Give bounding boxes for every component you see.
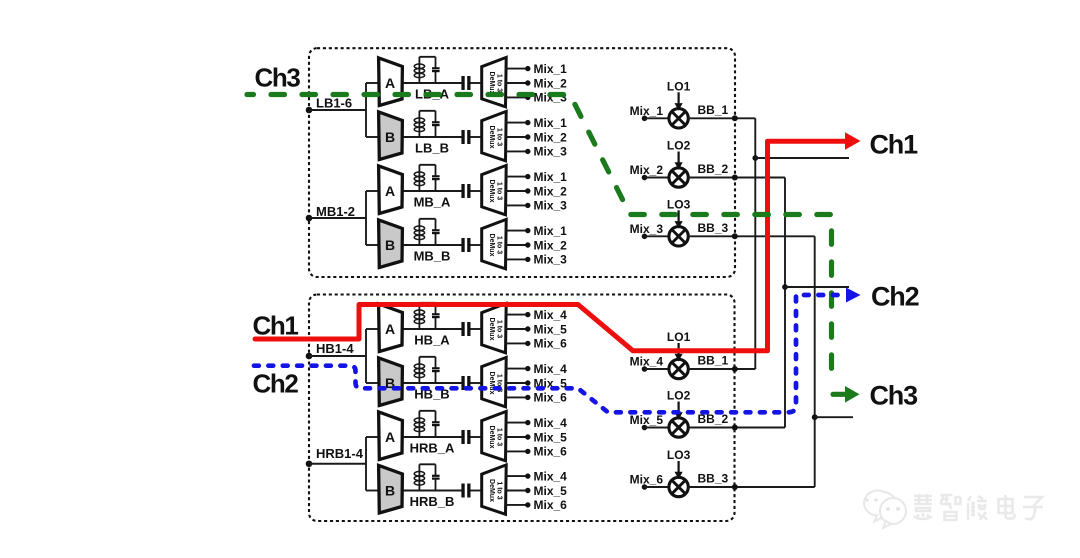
wire: MB_A row main line [402, 190, 462, 192]
svg-text:Mix_2: Mix_2 [534, 184, 568, 198]
mixer input port Mix_1 [642, 116, 648, 122]
series capacitor after LB_A [461, 76, 464, 90]
svg-text:Mix_4: Mix_4 [534, 308, 568, 322]
demux output Mix_4 of HRB_A [506, 422, 528, 424]
svg-text:Ch2: Ch2 [871, 282, 919, 312]
svg-text:Mix_6: Mix_6 [534, 445, 568, 459]
output port dot on box border (BB_3) [732, 484, 738, 490]
1-to-3 demux MB_B [482, 219, 507, 268]
wire: HB_B row main line [402, 382, 462, 384]
amplifier LB_A (A) [379, 58, 403, 106]
svg-text:B: B [385, 482, 395, 498]
junction on BB_2 bus [782, 284, 788, 290]
svg-text:A: A [385, 75, 395, 91]
demux output Mix_1 of MB_A [506, 176, 528, 178]
svg-text:Mix_6: Mix_6 [534, 337, 568, 351]
svg-text:HB_A: HB_A [414, 333, 450, 348]
wire: BB_1 vertical bus [754, 118, 756, 369]
amplifier HB_A (A) [379, 304, 403, 352]
Ch2 signal path (blue dashed) [254, 295, 847, 412]
junction on BB_1 bus [752, 155, 758, 161]
mixer (circle-X) for Mix_3/BB_3 [669, 227, 688, 246]
wire: mixer BB_2 output [688, 177, 785, 179]
mixer (circle-X) for Mix_2/BB_2 [669, 168, 688, 187]
amplifier MB_A (A) [379, 166, 403, 214]
amplifier LB_B (B) [379, 112, 403, 160]
svg-text:Mix_2: Mix_2 [630, 163, 664, 177]
svg-text:LO1: LO1 [667, 330, 691, 344]
wire: HRB_A row main line [402, 436, 462, 438]
svg-text:LO1: LO1 [667, 79, 691, 93]
1-to-3 demux LB_B [482, 111, 507, 160]
svg-text:LB1-6: LB1-6 [316, 96, 352, 111]
series capacitor after LB_B [461, 130, 464, 144]
svg-text:Mix_3: Mix_3 [534, 199, 568, 213]
mixer (circle-X) for Mix_1/BB_1 [669, 109, 688, 128]
demux output Mix_1 of MB_B [506, 230, 528, 232]
svg-text:Mix_2: Mix_2 [534, 238, 568, 252]
wire: mixer BB_3 output [688, 486, 815, 488]
svg-text:1 to 3DeMux: 1 to 3DeMux [488, 426, 503, 449]
svg-text:Mix_1: Mix_1 [534, 62, 568, 76]
wire: HRB_B row main line [402, 490, 462, 492]
output port dot on box border (BB_1) [732, 115, 738, 121]
mixer input port Mix_2 [642, 175, 648, 181]
svg-text:Ch3: Ch3 [255, 63, 301, 93]
junction on BB_3 bus [812, 414, 818, 420]
svg-text:Mix_6: Mix_6 [534, 498, 568, 512]
tank capacitor plates HB_A [432, 313, 440, 315]
wire: mixer BB_2 output [688, 427, 785, 429]
wire: BB_3 bus to Ch3 output [815, 416, 853, 418]
svg-text:Ch1: Ch1 [870, 130, 919, 160]
svg-text:Ch3: Ch3 [870, 381, 919, 411]
svg-text:MB_A: MB_A [414, 195, 451, 210]
svg-text:B: B [385, 237, 395, 253]
matching tank LB_B: inductor + capacitor loop [414, 111, 435, 137]
watermark: company name (CJK strokes) [914, 494, 1043, 520]
mixer input port Mix_6 [642, 484, 648, 490]
svg-text:1 to 3DeMux: 1 to 3DeMux [488, 234, 503, 257]
Ch3 signal path (green dashed) [247, 95, 832, 385]
tank capacitor plates HRB_B [432, 475, 440, 477]
dashed enclosure box: second-stage bank (HB/HRB) [309, 295, 735, 522]
1-to-3 demux MB_A [482, 165, 507, 214]
demux output Mix_6 of HB_A [506, 342, 528, 344]
series capacitor after HRB_A [461, 430, 464, 444]
demux output Mix_2 of LB_B [506, 136, 528, 138]
series capacitor after HRB_B [461, 484, 464, 498]
wire: BB_2 vertical bus [784, 178, 786, 428]
svg-text:Mix_1: Mix_1 [534, 170, 568, 184]
tank capacitor plates MB_A [432, 175, 440, 177]
demux output Mix_1 of LB_B [506, 122, 528, 124]
matching tank MB_A: inductor + capacitor loop [414, 165, 435, 191]
amplifier HRB_B (B) [379, 465, 403, 513]
svg-text:Mix_5: Mix_5 [534, 322, 568, 336]
svg-text:LO2: LO2 [667, 389, 691, 403]
demux output Mix_5 of HRB_A [506, 436, 528, 438]
demux output Mix_3 of MB_A [506, 204, 528, 206]
wire: splitter to amp A input [366, 328, 379, 330]
wire: BB_1 bus to Ch1 output [755, 157, 849, 159]
demux output Mix_1 of LB_A [506, 68, 528, 70]
wire: BB_2 bus to Ch2 output [785, 286, 849, 288]
matching tank MB_B: inductor + capacitor loop [414, 219, 435, 245]
svg-text:1 to 3DeMux: 1 to 3DeMux [488, 180, 503, 203]
svg-text:Ch2: Ch2 [253, 369, 299, 399]
tank capacitor plates LB_B [432, 121, 440, 123]
wire: Mix_3 port to mixer [645, 235, 670, 237]
wire: splitter to amp A input [366, 82, 379, 84]
wire: mixer BB_1 output [688, 368, 755, 370]
wire: mixer BB_3 output [688, 235, 815, 237]
demux output Mix_4 of HB_A [506, 314, 528, 316]
series capacitor after MB_A [461, 184, 464, 198]
demux output Mix_5 of HB_B [506, 382, 528, 384]
svg-text:Mix_6: Mix_6 [534, 391, 568, 405]
svg-text:A: A [385, 183, 395, 199]
tank capacitor plates HB_B [432, 367, 440, 369]
matching tank HB_A: inductor + capacitor loop [414, 303, 435, 329]
wire: port HB1-4 to splitter [309, 355, 366, 357]
svg-text:HRB_B: HRB_B [410, 494, 455, 509]
svg-text:BB_1: BB_1 [698, 354, 729, 368]
demux output Mix_5 of HRB_B [506, 490, 528, 492]
wire: splitter to amp A input [366, 436, 379, 438]
wire: port LB1-6 to splitter [309, 109, 366, 111]
wire: splitter vertical for HRB1-4 [365, 437, 367, 491]
demux output Mix_3 of LB_B [506, 150, 528, 152]
demux output Mix_3 of LB_A [506, 96, 528, 98]
svg-text:MB1-2: MB1-2 [316, 204, 355, 219]
tank capacitor plates MB_B [432, 229, 440, 231]
Ch1 signal path (red solid) [255, 141, 846, 351]
svg-text:LB_B: LB_B [415, 141, 449, 156]
wire: port HRB1-4 to splitter [309, 463, 366, 465]
1-to-3 demux HRB_B [482, 465, 507, 514]
wire: splitter to amp B input [366, 136, 379, 138]
1-to-3 demux HB_B [482, 357, 507, 406]
svg-text:LO3: LO3 [667, 448, 691, 462]
demux output Mix_5 of HB_A [506, 328, 528, 330]
wire: splitter vertical for MB1-2 [365, 191, 367, 245]
mixer input port Mix_5 [642, 425, 648, 431]
output port dot on box border (BB_1) [732, 366, 738, 372]
output port dot on box border (BB_2) [732, 425, 738, 431]
svg-text:1 to 3DeMux: 1 to 3DeMux [488, 318, 503, 341]
wire: mixer BB_1 output [688, 117, 755, 119]
svg-text:A: A [385, 429, 395, 445]
demux output Mix_2 of LB_A [506, 82, 528, 84]
demux output Mix_6 of HRB_A [506, 450, 528, 452]
demux output Mix_3 of MB_B [506, 258, 528, 260]
wire: port MB1-2 to splitter [309, 217, 366, 219]
svg-text:Mix_3: Mix_3 [534, 145, 568, 159]
mixer input port Mix_4 [642, 366, 648, 372]
svg-text:Mix_4: Mix_4 [534, 362, 568, 376]
wire: Mix_4 port to mixer [645, 368, 670, 370]
wire: Mix_1 port to mixer [645, 117, 670, 119]
svg-text:A: A [385, 321, 395, 337]
wire: LB_B row main line [402, 136, 462, 138]
svg-text:HRB_A: HRB_A [410, 441, 455, 456]
wire: BB_3 vertical bus [814, 236, 816, 487]
svg-text:BB_3: BB_3 [698, 472, 729, 486]
svg-text:HB1-4: HB1-4 [316, 341, 354, 356]
svg-text:Mix_4: Mix_4 [630, 355, 664, 369]
svg-text:Mix_3: Mix_3 [630, 222, 664, 236]
wire: LB_A row main line [402, 82, 462, 84]
amplifier HB_B (B) [379, 358, 403, 406]
svg-text:HRB1-4: HRB1-4 [316, 446, 364, 461]
svg-text:1 to 3DeMux: 1 to 3DeMux [488, 372, 503, 395]
1-to-3 demux HRB_A [482, 411, 507, 460]
svg-text:B: B [385, 129, 395, 145]
amplifier HRB_A (A) [379, 412, 403, 460]
input port HB1-4 (dot on box border) [306, 353, 313, 360]
svg-text:1 to 3DeMux: 1 to 3DeMux [488, 479, 503, 502]
demux output Mix_6 of HB_B [506, 396, 528, 398]
series capacitor after HB_A [461, 322, 464, 336]
output port dot on box border (BB_3) [732, 233, 738, 239]
series capacitor after MB_B [461, 238, 464, 252]
output port dot on box border (BB_2) [732, 175, 738, 181]
demux output Mix_6 of HRB_B [506, 504, 528, 506]
svg-text:Mix_3: Mix_3 [534, 253, 568, 267]
svg-text:1 to 3DeMux: 1 to 3DeMux [488, 126, 503, 149]
matching tank LB_A: inductor + capacitor loop [414, 57, 435, 83]
wire: splitter to amp B input [366, 244, 379, 246]
wire: HB_A row main line [402, 328, 462, 330]
amplifier MB_B (B) [379, 220, 403, 268]
wire: MB_B row main line [402, 244, 462, 246]
demux output Mix_2 of MB_B [506, 244, 528, 246]
svg-text:Mix_5: Mix_5 [630, 413, 664, 427]
demux output Mix_2 of MB_A [506, 190, 528, 192]
input port MB1-2 (dot on box border) [306, 215, 313, 222]
wire: Mix_5 port to mixer [645, 427, 670, 429]
svg-text:MB_B: MB_B [414, 249, 451, 264]
watermark: WeChat icon [864, 491, 906, 528]
series capacitor after HB_B [461, 376, 464, 390]
svg-text:Mix_1: Mix_1 [630, 104, 664, 118]
mixer (circle-X) for Mix_6/BB_3 [669, 477, 688, 496]
wire: Mix_6 port to mixer [645, 486, 670, 488]
svg-text:Ch1: Ch1 [253, 311, 299, 341]
mixer (circle-X) for Mix_4/BB_1 [669, 359, 688, 378]
svg-text:Mix_1: Mix_1 [534, 116, 568, 130]
demux output Mix_4 of HB_B [506, 368, 528, 370]
svg-text:BB_3: BB_3 [698, 221, 729, 235]
wire: splitter to amp A input [366, 190, 379, 192]
wire: splitter vertical for LB1-6 [365, 83, 367, 137]
dashed enclosure box: first-stage bank (LB/MB) [309, 48, 735, 277]
1-to-3 demux HB_A [482, 303, 507, 352]
tank capacitor plates LB_A [432, 67, 440, 69]
wire: splitter to amp B input [366, 490, 379, 492]
matching tank HRB_B: inductor + capacitor loop [414, 464, 435, 490]
svg-text:Mix_5: Mix_5 [534, 430, 568, 444]
mixer input port Mix_3 [642, 234, 648, 240]
svg-text:Mix_6: Mix_6 [630, 473, 664, 487]
input port HRB1-4 (dot on box border) [306, 460, 313, 467]
matching tank HB_B: inductor + capacitor loop [414, 357, 435, 383]
wire: splitter vertical for HB1-4 [365, 329, 367, 383]
matching tank HRB_A: inductor + capacitor loop [414, 411, 435, 437]
svg-text:Mix_4: Mix_4 [534, 416, 568, 430]
svg-text:LO2: LO2 [667, 139, 691, 153]
wire: Mix_2 port to mixer [645, 177, 670, 179]
svg-text:1 to 3DeMux: 1 to 3DeMux [488, 72, 503, 95]
wire: splitter to amp B input [366, 382, 379, 384]
svg-text:BB_1: BB_1 [698, 103, 729, 117]
svg-text:BB_2: BB_2 [698, 162, 729, 176]
1-to-3 demux LB_A [482, 57, 507, 106]
svg-text:Mix_2: Mix_2 [534, 76, 568, 90]
svg-text:Mix_4: Mix_4 [534, 469, 568, 483]
svg-text:Mix_5: Mix_5 [534, 484, 568, 498]
input port LB1-6 (dot on box border) [306, 107, 313, 114]
demux output Mix_4 of HRB_B [506, 475, 528, 477]
tank capacitor plates HRB_A [432, 421, 440, 423]
mixer (circle-X) for Mix_5/BB_2 [669, 418, 688, 437]
svg-text:Mix_1: Mix_1 [534, 224, 568, 238]
svg-text:LO3: LO3 [667, 197, 691, 211]
svg-text:Mix_2: Mix_2 [534, 130, 568, 144]
